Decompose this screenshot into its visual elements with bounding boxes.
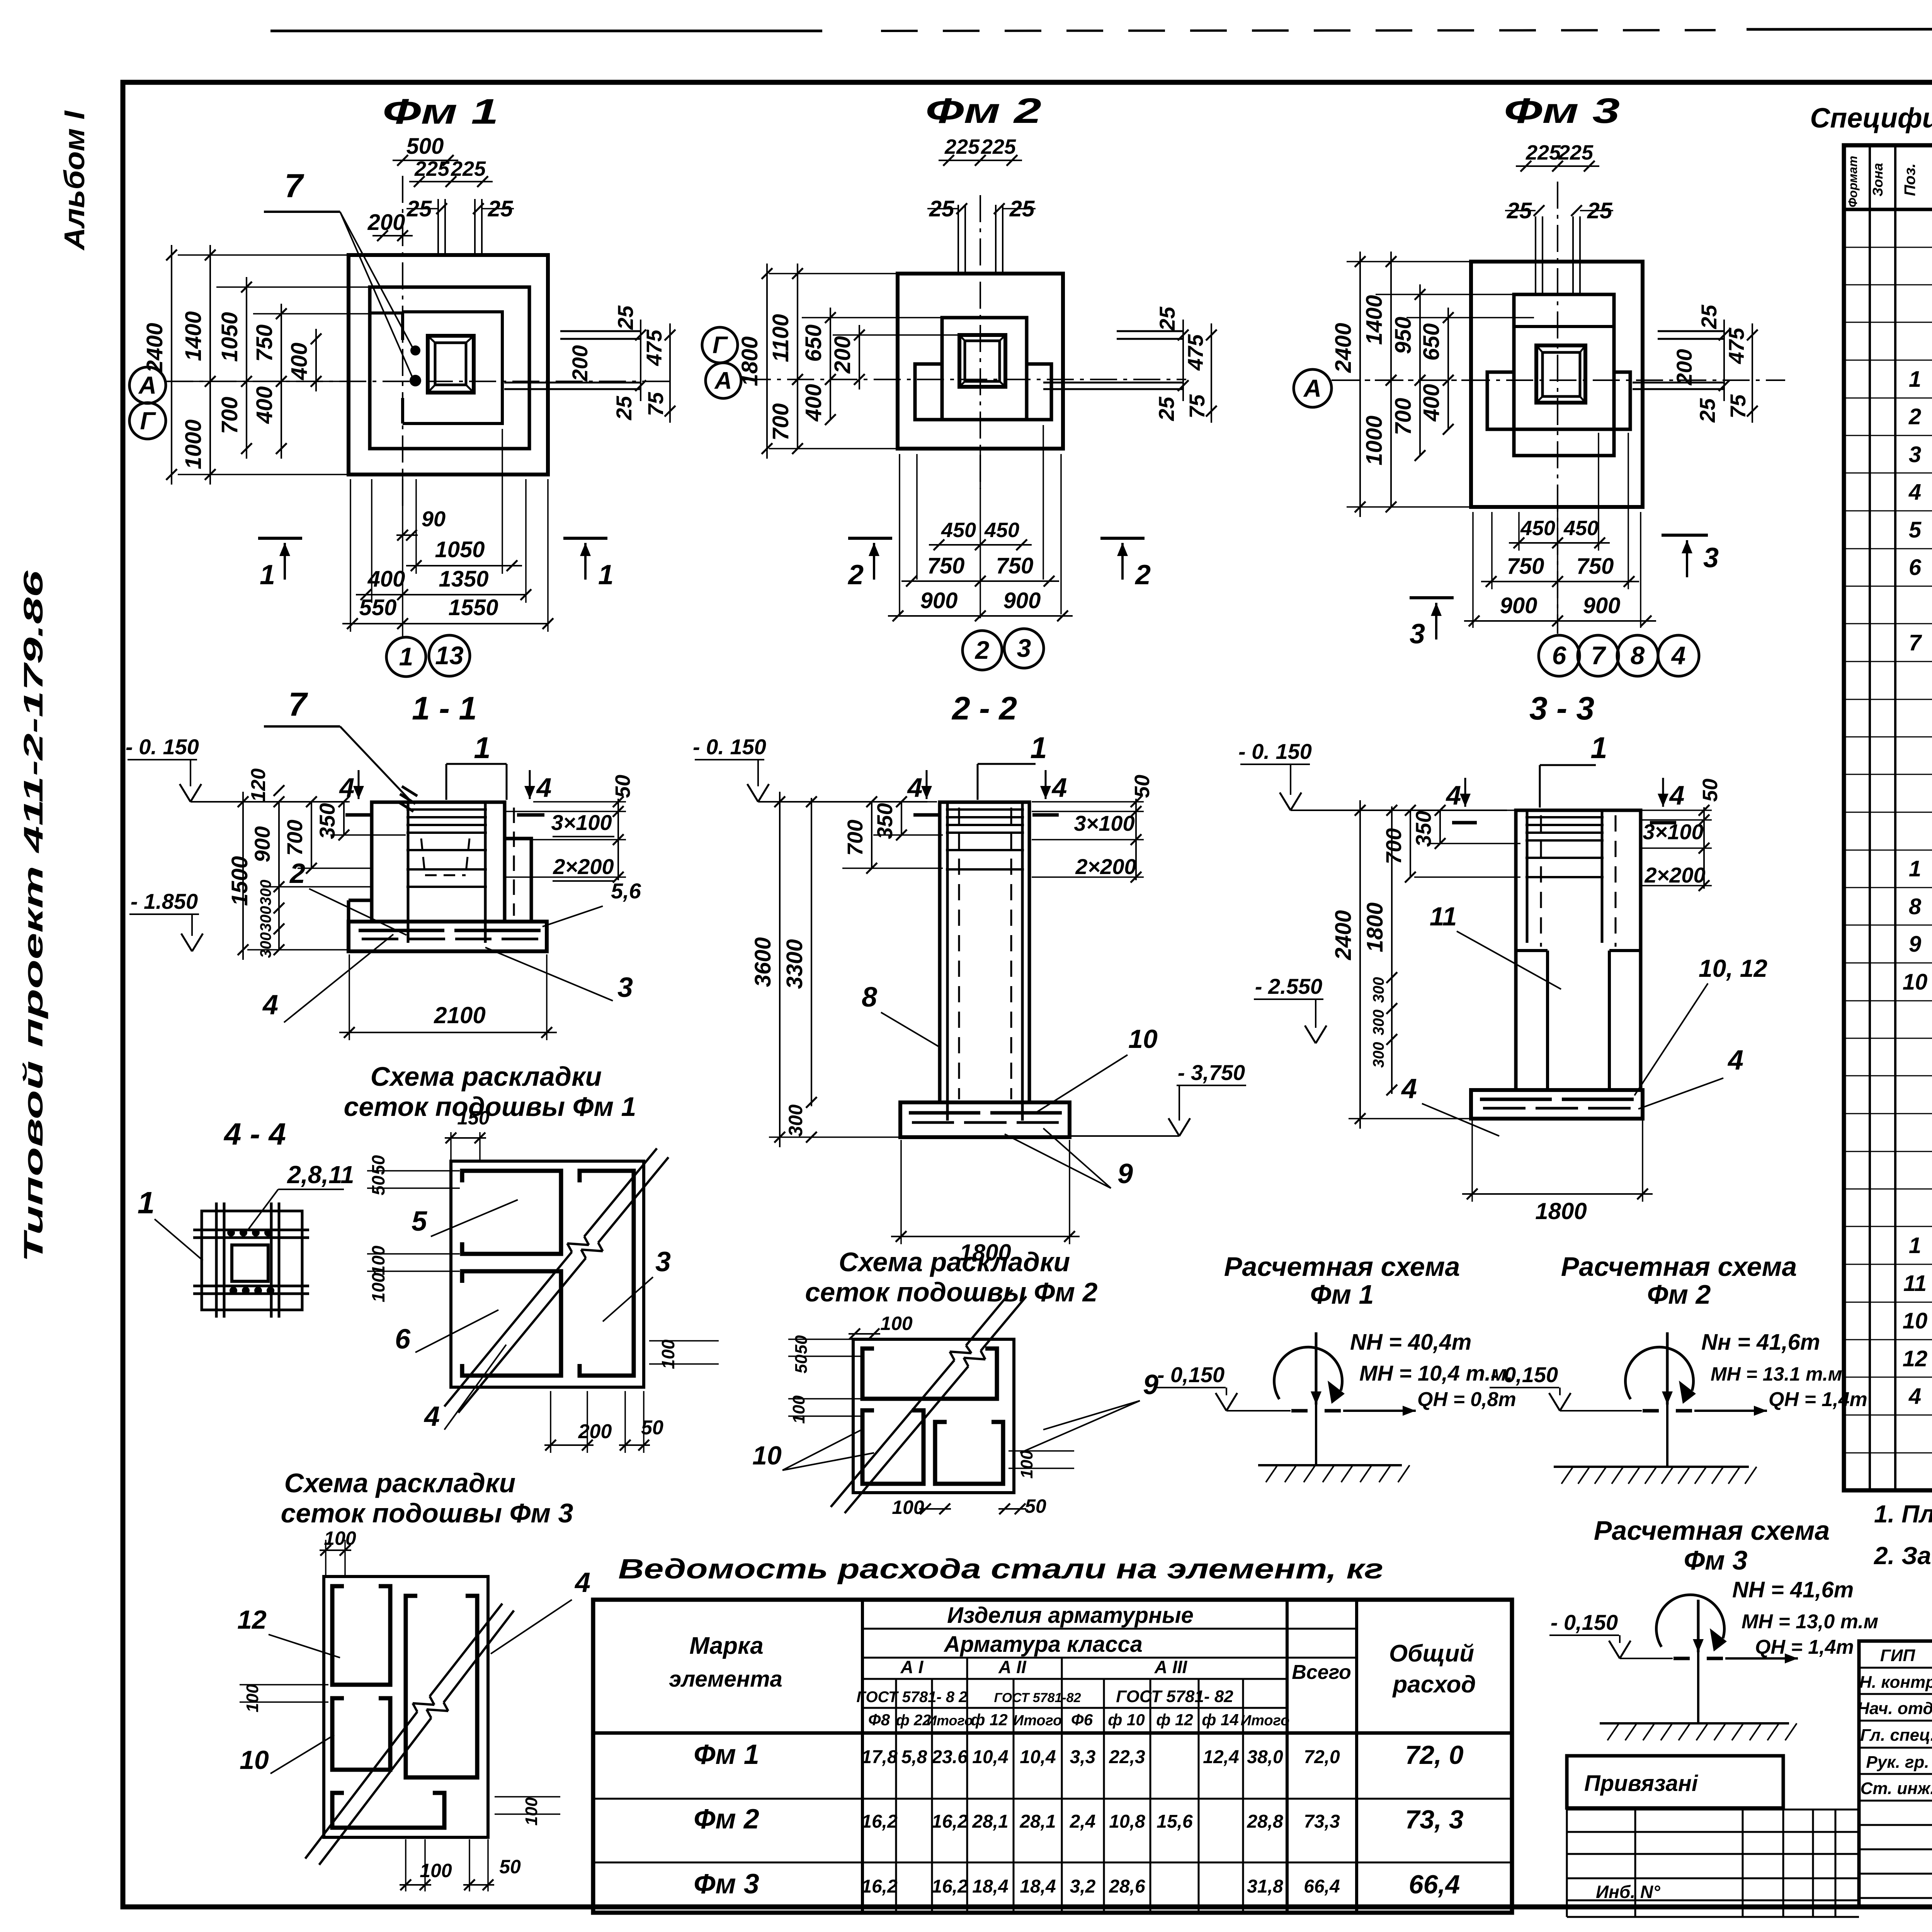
svg-text:50: 50 bbox=[611, 775, 634, 798]
svg-text:225: 225 bbox=[1526, 141, 1561, 164]
section 3-3 footing mesh bbox=[1480, 1098, 1552, 1101]
svg-text:100: 100 bbox=[658, 1339, 678, 1369]
svg-text:100: 100 bbox=[368, 1272, 388, 1302]
svg-text:17,8: 17,8 bbox=[861, 1747, 898, 1767]
plan Фм2 horizontal axis bbox=[744, 379, 1186, 380]
svg-text:1: 1 bbox=[1030, 731, 1047, 765]
scheme Фм2 diagonal break bbox=[831, 1360, 954, 1507]
svg-text:4 - 4: 4 - 4 bbox=[223, 1117, 286, 1151]
spec table outer border bbox=[1844, 145, 1932, 1490]
svg-text:13: 13 bbox=[435, 641, 463, 670]
plan Фм3 position circles 6 7 8 4 bbox=[1539, 635, 1580, 676]
svg-text:100: 100 bbox=[522, 1797, 541, 1826]
svg-text:ГИП: ГИП bbox=[1880, 1646, 1916, 1665]
svg-text:4: 4 bbox=[1401, 1073, 1417, 1104]
plan Фм3 top dim 25 25 bbox=[1505, 210, 1536, 211]
svg-text:1550: 1550 bbox=[448, 595, 498, 620]
svg-text:200: 200 bbox=[1672, 349, 1696, 385]
detail 4-4 inner square bbox=[232, 1245, 268, 1281]
plan Фм1 bottom dims bbox=[350, 479, 351, 632]
vedomost horizontals bbox=[862, 1628, 1357, 1630]
svg-text:900: 900 bbox=[1500, 593, 1537, 618]
svg-text:сеток подошвы Фм 3: сеток подошвы Фм 3 bbox=[281, 1498, 573, 1528]
svg-text:2,4: 2,4 bbox=[1070, 1811, 1096, 1832]
svg-text:Нач. отд.: Нач. отд. bbox=[1857, 1699, 1932, 1718]
svg-text:15,6: 15,6 bbox=[1156, 1811, 1193, 1832]
svg-text:МН = 10,4 т.м.: МН = 10,4 т.м. bbox=[1359, 1361, 1513, 1385]
svg-text:200: 200 bbox=[367, 210, 405, 235]
svg-text:50: 50 bbox=[368, 1175, 388, 1196]
svg-text:1000: 1000 bbox=[1362, 415, 1387, 465]
svg-text:350: 350 bbox=[1411, 811, 1435, 847]
svg-text:100: 100 bbox=[789, 1395, 808, 1424]
svg-text:50: 50 bbox=[1025, 1495, 1046, 1517]
svg-text:50: 50 bbox=[792, 1354, 811, 1373]
section 1-1 dim 2100 bbox=[349, 954, 350, 1040]
svg-text:4: 4 bbox=[1671, 641, 1686, 670]
svg-text:2: 2 bbox=[1908, 404, 1921, 429]
svg-text:300: 300 bbox=[1370, 1042, 1387, 1068]
section 3-3 left dims bbox=[1349, 810, 1515, 811]
svg-text:3,2: 3,2 bbox=[1070, 1876, 1096, 1897]
title block signature table bbox=[1859, 1641, 1932, 1907]
svg-text:225: 225 bbox=[414, 157, 450, 180]
svg-text:3: 3 bbox=[617, 972, 633, 1003]
svg-text:10,4: 10,4 bbox=[972, 1747, 1008, 1767]
scheme Фм3 diagonal break bbox=[305, 1712, 417, 1859]
svg-text:3300: 3300 bbox=[782, 939, 807, 989]
svg-text:2,8,11: 2,8,11 bbox=[287, 1161, 354, 1189]
svg-text:22,3: 22,3 bbox=[1109, 1747, 1145, 1767]
svg-text:1: 1 bbox=[1590, 731, 1607, 765]
calc scheme moment arc bbox=[1656, 1595, 1725, 1647]
plan Фм3 right dims bbox=[1723, 320, 1725, 401]
svg-text:73,3: 73,3 bbox=[1304, 1811, 1340, 1832]
calc scheme Q arrow bbox=[1725, 1657, 1798, 1660]
svg-text:25: 25 bbox=[1155, 306, 1179, 331]
section 1-1 left dims bbox=[247, 801, 350, 803]
svg-text:1800: 1800 bbox=[1535, 1198, 1587, 1224]
svg-text:950: 950 bbox=[1391, 317, 1416, 354]
plan Фм2 top dim 25 25 bbox=[927, 208, 958, 209]
svg-text:Фм 1: Фм 1 bbox=[694, 1739, 759, 1770]
plan Фм1 anchor bolts bbox=[410, 345, 420, 355]
svg-text:2×200: 2×200 bbox=[1075, 854, 1136, 879]
scheme Фм1 mesh panel top-left bbox=[462, 1171, 561, 1254]
plan Фм2 vertical axis bbox=[980, 195, 981, 489]
svg-text:10, 12: 10, 12 bbox=[1699, 954, 1767, 982]
plan Фм3 column glass bbox=[1536, 345, 1585, 403]
svg-text:ф 14: ф 14 bbox=[1202, 1711, 1239, 1729]
svg-text:Фм 1: Фм 1 bbox=[383, 92, 498, 131]
svg-text:750: 750 bbox=[252, 325, 277, 362]
section 1-1 left ledge bbox=[349, 899, 372, 902]
svg-text:750: 750 bbox=[927, 553, 965, 578]
svg-text:Схема раскладки: Схема раскладки bbox=[284, 1468, 516, 1498]
plan Фм3 outer slab bbox=[1471, 262, 1643, 507]
svg-text:7: 7 bbox=[284, 167, 304, 204]
svg-text:QН = 1,4т: QН = 1,4т bbox=[1755, 1636, 1854, 1658]
section 3-3 rebar cage horizontals bbox=[1526, 816, 1604, 818]
svg-text:25: 25 bbox=[1695, 398, 1719, 423]
svg-text:4: 4 bbox=[1051, 772, 1067, 803]
plan Фм1 position circles 1 13 bbox=[386, 637, 426, 677]
plan Фм3 horizontal axis bbox=[1333, 379, 1785, 381]
svg-text:75: 75 bbox=[1185, 394, 1209, 418]
svg-text:Расчетная схема: Расчетная схема bbox=[1224, 1252, 1460, 1282]
plan Фм1 right dims bbox=[640, 320, 641, 401]
svg-text:3×100: 3×100 bbox=[1074, 811, 1134, 835]
scheme Фм1 slab outline bbox=[451, 1161, 644, 1387]
calc scheme column bbox=[1315, 1332, 1317, 1465]
svg-text:10: 10 bbox=[1903, 969, 1928, 995]
calc scheme N arrow bbox=[1666, 1332, 1669, 1405]
svg-text:Всего: Всего bbox=[1292, 1661, 1351, 1684]
section 2-2 rebar verticals bbox=[946, 804, 949, 1121]
svg-text:1. План фундаментов см..: 1. План фундаментов см.. лист кж-2. bbox=[1874, 1500, 1932, 1528]
svg-text:100: 100 bbox=[324, 1527, 356, 1549]
svg-text:4: 4 bbox=[907, 772, 923, 803]
svg-text:сеток подошвы Фм 1: сеток подошвы Фм 1 bbox=[344, 1092, 636, 1122]
svg-text:50: 50 bbox=[499, 1856, 521, 1878]
plan Фм1 section mark 1 right bbox=[563, 537, 607, 540]
svg-text:- 0. 150: - 0. 150 bbox=[1238, 739, 1312, 764]
svg-text:QН = 1,4т: QН = 1,4т bbox=[1769, 1388, 1867, 1411]
plan Фм2 section mark 2 left bbox=[848, 537, 892, 540]
svg-text:- 0. 150: - 0. 150 bbox=[693, 735, 766, 759]
svg-text:- 0,150: - 0,150 bbox=[1551, 1610, 1618, 1634]
plan Фм3 section mark 3 left bbox=[1410, 596, 1454, 599]
svg-text:300: 300 bbox=[257, 906, 274, 932]
plan Фм3 pedestal bbox=[1514, 294, 1614, 456]
svg-text:3×100: 3×100 bbox=[1643, 820, 1703, 844]
svg-text:NН = 40,4т: NН = 40,4т bbox=[1350, 1330, 1471, 1355]
svg-text:9: 9 bbox=[1143, 1369, 1158, 1400]
plan Фм3 wing slab bbox=[1487, 372, 1630, 429]
svg-text:900: 900 bbox=[1003, 588, 1041, 613]
detail 4-4 bars horizontal bbox=[193, 1229, 309, 1231]
section 1-1 glass dashed bbox=[421, 838, 425, 875]
svg-text:25: 25 bbox=[1507, 198, 1532, 223]
svg-text:50: 50 bbox=[1131, 775, 1154, 798]
svg-text:150: 150 bbox=[457, 1107, 490, 1129]
svg-text:10,4: 10,4 bbox=[1020, 1747, 1056, 1767]
svg-text:3,3: 3,3 bbox=[1070, 1747, 1096, 1767]
svg-text:225: 225 bbox=[944, 135, 980, 158]
svg-text:12: 12 bbox=[237, 1605, 267, 1634]
svg-text:900: 900 bbox=[250, 826, 274, 862]
section 3-3 dim 1800 bbox=[1471, 1121, 1473, 1202]
scheme Фм1 mesh panel right bbox=[580, 1171, 634, 1376]
scheme Фм2 mesh panel top bbox=[862, 1349, 997, 1399]
calc scheme level bar bbox=[1643, 1409, 1659, 1413]
svg-text:10: 10 bbox=[1903, 1308, 1928, 1333]
svg-text:200: 200 bbox=[568, 345, 592, 381]
svg-text:25: 25 bbox=[1154, 396, 1179, 421]
svg-text:Инб. N°: Инб. N° bbox=[1596, 1882, 1660, 1902]
calc scheme Q arrow bbox=[1343, 1410, 1416, 1412]
svg-text:5: 5 bbox=[412, 1206, 427, 1237]
svg-text:3600: 3600 bbox=[750, 937, 776, 987]
svg-text:2400: 2400 bbox=[1331, 910, 1356, 960]
svg-text:Ведомость расхода стали: Ведомость расхода стали на элемент, кг bbox=[618, 1554, 1383, 1585]
svg-text:23.6: 23.6 bbox=[931, 1747, 968, 1767]
svg-text:1350: 1350 bbox=[439, 566, 488, 592]
svg-text:300: 300 bbox=[785, 1104, 806, 1137]
plan Фм1 top dim 200 bbox=[372, 235, 413, 236]
plan Фм3 top dim 225 225 bbox=[1516, 165, 1599, 167]
svg-text:3×100: 3×100 bbox=[551, 810, 612, 835]
calc scheme N arrow bbox=[1697, 1600, 1700, 1652]
svg-text:16,2: 16,2 bbox=[861, 1876, 898, 1897]
section 1-1 footing slab bbox=[349, 922, 547, 951]
spec table column lines bbox=[1869, 145, 1871, 1490]
calc scheme N arrow bbox=[1315, 1332, 1318, 1405]
svg-text:8: 8 bbox=[1909, 894, 1922, 919]
svg-text:9: 9 bbox=[1909, 932, 1921, 957]
vedomost sub verticals bbox=[895, 1679, 897, 1913]
svg-text:Марка: Марка bbox=[689, 1633, 763, 1659]
svg-text:500: 500 bbox=[406, 134, 444, 159]
calc scheme moment arc bbox=[1274, 1347, 1342, 1399]
svg-text:4: 4 bbox=[1908, 480, 1921, 505]
svg-text:4: 4 bbox=[1669, 780, 1685, 810]
section 1-1 hidden edge dashed bbox=[513, 808, 515, 916]
svg-text:11: 11 bbox=[1430, 902, 1457, 931]
svg-text:900: 900 bbox=[1583, 593, 1621, 618]
svg-text:QН = 0,8т: QН = 0,8т bbox=[1417, 1388, 1516, 1411]
svg-text:ф 10: ф 10 bbox=[1108, 1711, 1145, 1729]
svg-text:25: 25 bbox=[612, 396, 636, 420]
svg-text:Поз.: Поз. bbox=[1901, 163, 1918, 196]
calc scheme column bbox=[1666, 1332, 1668, 1467]
calc scheme column bbox=[1697, 1600, 1699, 1723]
svg-text:4: 4 bbox=[1446, 780, 1461, 810]
svg-text:2100: 2100 bbox=[434, 1002, 485, 1028]
svg-text:1100: 1100 bbox=[768, 314, 793, 362]
section 2-2 column body bbox=[940, 802, 1029, 1102]
svg-text:Гл. спец.: Гл. спец. bbox=[1860, 1726, 1932, 1745]
svg-text:25: 25 bbox=[406, 196, 432, 221]
svg-text:Итого: Итого bbox=[1013, 1713, 1062, 1729]
section 3-3 inner column bbox=[1546, 951, 1549, 1090]
svg-text:Ф6: Ф6 bbox=[1071, 1711, 1093, 1729]
svg-text:50: 50 bbox=[792, 1335, 811, 1354]
svg-text:4: 4 bbox=[339, 772, 355, 803]
plan Фм2 right dims bbox=[1182, 320, 1184, 401]
svg-text:72, 0: 72, 0 bbox=[1405, 1740, 1463, 1770]
svg-text:1: 1 bbox=[598, 560, 614, 590]
section 3-3 hidden glass dashed bbox=[1540, 815, 1542, 947]
svg-text:4: 4 bbox=[1727, 1045, 1743, 1076]
svg-text:1800: 1800 bbox=[1362, 902, 1388, 952]
svg-text:- 3,750: - 3,750 bbox=[1178, 1060, 1245, 1085]
svg-text:А: А bbox=[1303, 374, 1321, 402]
svg-text:Альбом I: Альбом I bbox=[58, 110, 90, 251]
svg-text:28,1: 28,1 bbox=[972, 1811, 1008, 1832]
svg-text:6: 6 bbox=[1552, 641, 1567, 670]
svg-text:72,0: 72,0 bbox=[1304, 1747, 1340, 1767]
svg-text:2400: 2400 bbox=[142, 323, 167, 373]
svg-text:5,6: 5,6 bbox=[611, 879, 641, 903]
calc scheme ground hatch bbox=[1600, 1722, 1789, 1725]
section 3-3 rebar verticals bbox=[1526, 811, 1529, 943]
svg-text:Расчетная схема: Расчетная схема bbox=[1561, 1252, 1797, 1282]
svg-text:1: 1 bbox=[260, 560, 275, 590]
plan Фм1 top dim 225 225 bbox=[409, 181, 493, 182]
scheme Фм3 mesh panel right bbox=[406, 1596, 477, 1777]
svg-text:2 - 2: 2 - 2 bbox=[951, 690, 1017, 726]
plan Фм3 axis circle А bbox=[1294, 369, 1332, 407]
svg-text:4: 4 bbox=[1908, 1384, 1921, 1409]
svg-text:350: 350 bbox=[315, 803, 339, 839]
svg-text:450: 450 bbox=[1520, 517, 1555, 540]
svg-text:4: 4 bbox=[536, 772, 552, 803]
section 1-1 footing mesh bbox=[359, 929, 444, 932]
svg-text:475: 475 bbox=[1183, 334, 1207, 371]
svg-text:МН = 13.1 т.м: МН = 13.1 т.м bbox=[1711, 1363, 1842, 1385]
plan Фм1 left dim chain bbox=[178, 254, 350, 256]
svg-text:650: 650 bbox=[1419, 323, 1444, 361]
svg-text:ф 22: ф 22 bbox=[896, 1712, 931, 1729]
spec table row lines bbox=[1844, 247, 1932, 248]
svg-text:- 0. 150: - 0. 150 bbox=[126, 735, 199, 759]
svg-text:73, 3: 73, 3 bbox=[1405, 1805, 1463, 1834]
svg-text:ф 12: ф 12 bbox=[971, 1711, 1008, 1729]
svg-text:25: 25 bbox=[613, 305, 638, 330]
plan Фм2 left dim chain bbox=[769, 273, 896, 274]
svg-text:8: 8 bbox=[1631, 641, 1645, 670]
svg-text:А: А bbox=[714, 367, 732, 394]
svg-text:225: 225 bbox=[981, 135, 1016, 158]
svg-text:300: 300 bbox=[257, 932, 274, 958]
detail 4-4 bars vertical bbox=[215, 1202, 218, 1318]
section 2-2 footing slab bbox=[900, 1102, 1070, 1137]
svg-text:Ф8: Ф8 bbox=[868, 1711, 890, 1729]
svg-text:4: 4 bbox=[262, 990, 278, 1020]
svg-text:3 - 3: 3 - 3 bbox=[1529, 690, 1594, 726]
svg-text:7: 7 bbox=[288, 686, 308, 723]
svg-text:Формат: Формат bbox=[1846, 156, 1860, 207]
svg-text:10: 10 bbox=[752, 1441, 782, 1470]
section 2-2 left dims bbox=[769, 801, 937, 803]
section 2-2 right dims bbox=[1032, 801, 1144, 803]
svg-text:66,4: 66,4 bbox=[1304, 1876, 1340, 1897]
svg-text:ГОСТ 5781-82: ГОСТ 5781-82 bbox=[994, 1690, 1081, 1705]
svg-text:25: 25 bbox=[1587, 198, 1612, 223]
svg-text:1400: 1400 bbox=[1362, 295, 1387, 345]
svg-text:6: 6 bbox=[395, 1324, 411, 1355]
svg-text:100: 100 bbox=[892, 1497, 924, 1518]
scheme Фм1 diagonal break bbox=[444, 1252, 572, 1406]
svg-text:550: 550 bbox=[359, 595, 397, 620]
plan Фм1 embed plate right bbox=[560, 330, 641, 332]
scheme Фм2 mesh panel right bbox=[935, 1422, 1003, 1484]
svg-text:Н. контр: Н. контр bbox=[1859, 1673, 1932, 1692]
svg-text:2: 2 bbox=[847, 560, 864, 590]
svg-text:2: 2 bbox=[975, 636, 990, 664]
vedomost outer border bbox=[593, 1600, 1512, 1913]
svg-text:700: 700 bbox=[843, 820, 867, 855]
svg-text:NН = 41,6т: NН = 41,6т bbox=[1732, 1577, 1854, 1602]
svg-text:Фм 2: Фм 2 bbox=[694, 1804, 759, 1835]
svg-text:Типовой проект 411-2-179.86: Типовой проект 411-2-179.86 bbox=[18, 570, 48, 1262]
svg-text:300: 300 bbox=[1370, 1010, 1387, 1036]
svg-text:МН = 13,0 т.м: МН = 13,0 т.м bbox=[1742, 1611, 1878, 1633]
scheme Фм1 mesh panel bottom-left bbox=[462, 1271, 561, 1376]
svg-text:5: 5 bbox=[1909, 517, 1922, 543]
scheme Фм3 mesh panel bottom bbox=[332, 1793, 444, 1828]
svg-text:1000: 1000 bbox=[181, 419, 206, 469]
svg-text:элемента: элемента bbox=[669, 1667, 782, 1692]
scheme Фм2 slab outline bbox=[853, 1339, 1014, 1493]
svg-text:Nн = 41,6т: Nн = 41,6т bbox=[1701, 1330, 1820, 1355]
svg-text:18,4: 18,4 bbox=[972, 1876, 1008, 1897]
svg-text:1: 1 bbox=[138, 1185, 155, 1220]
plan Фм1 middle step bbox=[370, 287, 529, 449]
plan Фм1 inner step bbox=[403, 312, 502, 423]
svg-text:225: 225 bbox=[1558, 141, 1594, 164]
svg-text:18,4: 18,4 bbox=[1020, 1876, 1056, 1897]
svg-text:200: 200 bbox=[578, 1420, 612, 1443]
svg-text:1500: 1500 bbox=[227, 856, 252, 906]
plan Фм2 outer slab bbox=[898, 274, 1063, 449]
svg-text:Привязані: Привязані bbox=[1584, 1771, 1699, 1796]
section 1-1 right dims bbox=[533, 801, 626, 803]
svg-text:25: 25 bbox=[1697, 304, 1721, 329]
svg-text:Г: Г bbox=[140, 407, 156, 435]
scheme Фм2 mesh panel left-bottom bbox=[862, 1410, 923, 1484]
section 2-2 footing mesh bbox=[909, 1111, 980, 1115]
plan Фм1 outer slab bbox=[349, 255, 548, 474]
scheme Фм3 mesh panel top-left bbox=[332, 1586, 390, 1685]
detail 4-4 dots bbox=[227, 1229, 235, 1236]
section 3-3 right dims bbox=[1642, 810, 1712, 811]
svg-text:5,8: 5,8 bbox=[901, 1747, 927, 1767]
svg-text:28,1: 28,1 bbox=[1019, 1811, 1056, 1832]
svg-text:120: 120 bbox=[247, 769, 270, 802]
plan Фм2 axis circles Г А bbox=[702, 327, 738, 363]
svg-text:100: 100 bbox=[243, 1684, 262, 1713]
plan Фм3 embed plate right bbox=[1658, 330, 1724, 332]
svg-text:1050: 1050 bbox=[217, 312, 242, 362]
svg-text:1800: 1800 bbox=[737, 336, 762, 386]
svg-text:475: 475 bbox=[1724, 327, 1748, 364]
svg-text:1050: 1050 bbox=[435, 537, 485, 562]
svg-text:2: 2 bbox=[1134, 560, 1151, 590]
svg-text:7: 7 bbox=[1591, 641, 1607, 670]
svg-text:10: 10 bbox=[1128, 1024, 1158, 1054]
svg-text:Изделия арматурные: Изделия арматурные bbox=[947, 1603, 1194, 1628]
svg-text:3: 3 bbox=[1017, 634, 1031, 662]
svg-text:ГОСТ 5781- 82: ГОСТ 5781- 82 bbox=[1116, 1687, 1233, 1706]
svg-text:1: 1 bbox=[1909, 856, 1921, 881]
svg-text:400: 400 bbox=[367, 566, 405, 592]
svg-text:900: 900 bbox=[920, 588, 958, 613]
svg-text:А III: А III bbox=[1154, 1657, 1188, 1677]
svg-text:28,6: 28,6 bbox=[1109, 1876, 1145, 1897]
detail 4-4 outer square bbox=[202, 1211, 302, 1310]
plan Фм2 position circles 2 3 bbox=[963, 631, 1002, 670]
plan Фм1 column glass bbox=[428, 336, 474, 393]
spec table header row line bbox=[1844, 208, 1932, 211]
svg-text:сеток подошвы Фм 2: сеток подошвы Фм 2 bbox=[805, 1277, 1098, 1307]
calc scheme level bar bbox=[1673, 1657, 1690, 1660]
calc scheme ground hatch bbox=[1258, 1464, 1402, 1466]
svg-text:400: 400 bbox=[252, 386, 277, 424]
svg-text:25: 25 bbox=[488, 196, 513, 221]
scheme Фм3 slab outline bbox=[324, 1577, 488, 1837]
